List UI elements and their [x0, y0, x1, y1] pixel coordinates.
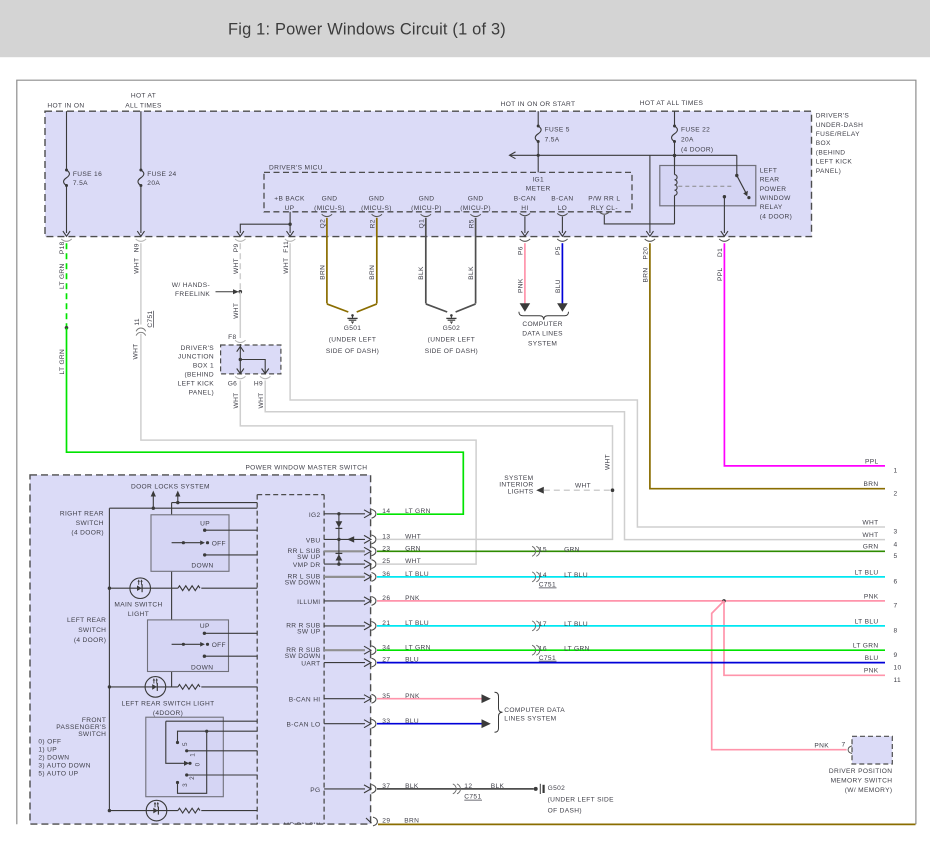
svg-text:HOT IN ON OR START: HOT IN ON OR START	[501, 101, 576, 108]
svg-text:(MICU-S): (MICU-S)	[314, 205, 345, 212]
svg-text:LT GRN: LT GRN	[59, 263, 66, 289]
svg-text:SW DOWN: SW DOWN	[285, 653, 321, 660]
svg-text:(UNDER LEFT: (UNDER LEFT	[428, 337, 475, 344]
svg-text:LT GRN: LT GRN	[853, 643, 879, 650]
svg-text:(4 DOOR): (4 DOOR)	[71, 529, 103, 536]
svg-text:DRIVER'S: DRIVER'S	[181, 345, 215, 352]
svg-text:DRIVER POSITION: DRIVER POSITION	[829, 768, 893, 775]
svg-text:G502: G502	[548, 785, 566, 792]
svg-text:LT BLU: LT BLU	[855, 618, 879, 625]
svg-text:(UNDER LEFT: (UNDER LEFT	[329, 337, 376, 344]
svg-text:POWER: POWER	[760, 186, 787, 193]
svg-text:N9: N9	[134, 243, 141, 252]
svg-text:14: 14	[382, 508, 390, 515]
svg-text:BRN: BRN	[319, 265, 326, 280]
svg-text:WHT: WHT	[862, 519, 878, 526]
svg-text:0) OFF: 0) OFF	[38, 738, 61, 745]
svg-text:10: 10	[894, 664, 902, 671]
svg-text:UP: UP	[285, 205, 295, 212]
svg-text:WHT: WHT	[134, 258, 141, 274]
svg-text:MEMORY SWITCH: MEMORY SWITCH	[831, 778, 893, 785]
svg-text:16: 16	[539, 645, 547, 652]
svg-text:6: 6	[894, 579, 898, 586]
svg-text:G501: G501	[344, 325, 362, 332]
svg-text:GND: GND	[468, 195, 484, 202]
svg-text:COMPUTER: COMPUTER	[522, 321, 563, 328]
svg-text:JUNCTION: JUNCTION	[178, 354, 214, 361]
svg-text:C751: C751	[464, 794, 481, 801]
svg-text:SW UP: SW UP	[297, 629, 321, 636]
svg-text:0: 0	[194, 762, 201, 766]
svg-text:BRN: BRN	[864, 481, 879, 488]
svg-text:WHT: WHT	[233, 392, 240, 408]
svg-text:WHT: WHT	[862, 532, 878, 539]
svg-text:W/ HANDS-: W/ HANDS-	[172, 282, 210, 289]
svg-text:WHT: WHT	[283, 258, 290, 274]
svg-text:UP: UP	[200, 520, 210, 527]
svg-text:SW UP: SW UP	[297, 554, 321, 561]
svg-text:LINES SYSTEM: LINES SYSTEM	[504, 715, 556, 722]
svg-text:29: 29	[382, 818, 390, 825]
svg-text:D1: D1	[717, 248, 724, 257]
svg-text:PG: PG	[310, 787, 320, 794]
svg-text:14: 14	[539, 572, 547, 579]
svg-text:SYSTEM: SYSTEM	[528, 340, 557, 347]
svg-text:PANEL): PANEL)	[189, 389, 214, 396]
svg-text:BLU: BLU	[555, 279, 562, 293]
svg-text:20A: 20A	[681, 137, 694, 144]
svg-text:3: 3	[894, 529, 898, 536]
svg-text:5: 5	[182, 742, 189, 746]
svg-text:(4DOOR): (4DOOR)	[153, 710, 183, 717]
svg-text:LIGHT: LIGHT	[128, 611, 149, 618]
svg-text:SIDE OF DASH): SIDE OF DASH)	[425, 348, 478, 355]
svg-text:1: 1	[894, 468, 898, 475]
svg-text:WHT: WHT	[133, 343, 140, 359]
svg-text:12: 12	[464, 783, 472, 790]
svg-text:RIGHT REAR: RIGHT REAR	[60, 511, 104, 518]
svg-text:LT BLU: LT BLU	[564, 621, 588, 628]
svg-text:GND: GND	[419, 195, 435, 202]
svg-text:F11: F11	[283, 241, 290, 253]
svg-text:DATA LINES: DATA LINES	[522, 331, 563, 338]
svg-text:UP: UP	[200, 623, 210, 630]
svg-text:OFF: OFF	[212, 642, 226, 649]
svg-text:1) UP: 1) UP	[38, 746, 57, 753]
svg-text:WHT: WHT	[405, 558, 421, 565]
svg-text:BLK: BLK	[418, 266, 425, 280]
svg-text:RELAY: RELAY	[760, 204, 783, 211]
svg-text:ALL TIMES: ALL TIMES	[125, 103, 162, 110]
svg-text:LT GRN: LT GRN	[405, 508, 431, 515]
svg-text:F8: F8	[228, 334, 236, 341]
svg-text:13: 13	[382, 534, 390, 541]
svg-text:FUSE 24: FUSE 24	[147, 171, 176, 178]
svg-text:20A: 20A	[147, 180, 160, 187]
svg-text:(MICU-P): (MICU-P)	[411, 205, 442, 212]
svg-text:LEFT REAR SWITCH LIGHT: LEFT REAR SWITCH LIGHT	[122, 701, 215, 708]
svg-text:SW DOWN: SW DOWN	[285, 580, 321, 587]
svg-text:METER: METER	[526, 186, 551, 193]
svg-text:B-CAN: B-CAN	[514, 195, 536, 202]
svg-text:Fig 1: Power Windows Circuit (: Fig 1: Power Windows Circuit (1 of 3)	[228, 20, 506, 38]
svg-text:P18: P18	[59, 241, 66, 254]
svg-text:DOWN: DOWN	[191, 664, 213, 671]
svg-text:FREELINK: FREELINK	[175, 291, 210, 298]
svg-text:COMPUTER DATA: COMPUTER DATA	[504, 707, 565, 714]
svg-text:4: 4	[894, 541, 898, 548]
svg-text:VMP DR: VMP DR	[293, 562, 321, 569]
svg-text:PNK: PNK	[864, 593, 879, 600]
svg-text:7: 7	[894, 603, 898, 610]
svg-text:PNK: PNK	[518, 278, 525, 293]
svg-text:LT BLU: LT BLU	[564, 572, 588, 579]
svg-text:2: 2	[894, 490, 898, 497]
svg-text:R2: R2	[370, 219, 377, 228]
svg-text:LT GRN: LT GRN	[59, 349, 66, 375]
svg-text:RLY CL-: RLY CL-	[591, 205, 618, 212]
svg-text:FRONT: FRONT	[82, 717, 106, 724]
svg-text:P5: P5	[555, 246, 562, 255]
svg-text:GND: GND	[369, 195, 385, 202]
svg-text:(W/ MEMORY): (W/ MEMORY)	[845, 787, 893, 794]
svg-text:+B BACK: +B BACK	[274, 195, 305, 202]
svg-text:LEFT KICK: LEFT KICK	[816, 159, 853, 166]
svg-text:HOT IN ON: HOT IN ON	[47, 103, 84, 110]
svg-text:(BEHIND: (BEHIND	[184, 372, 214, 379]
svg-text:C751: C751	[539, 582, 556, 589]
svg-text:PPL: PPL	[865, 458, 879, 465]
svg-text:BLK: BLK	[468, 266, 475, 280]
svg-text:BRN: BRN	[369, 265, 376, 280]
svg-text:R5: R5	[468, 219, 475, 228]
svg-text:BLK: BLK	[491, 783, 505, 790]
svg-text:FUSE 22: FUSE 22	[681, 126, 710, 133]
svg-text:IG2: IG2	[309, 512, 321, 519]
svg-text:FUSE 5: FUSE 5	[545, 126, 570, 133]
svg-text:15: 15	[539, 547, 547, 554]
svg-text:P20: P20	[643, 247, 650, 260]
svg-text:WHT: WHT	[233, 258, 240, 274]
svg-text:OFF: OFF	[212, 540, 226, 547]
svg-text:7.5A: 7.5A	[73, 180, 88, 187]
svg-text:BLU: BLU	[865, 655, 879, 662]
svg-text:SIDE OF DASH): SIDE OF DASH)	[326, 348, 379, 355]
svg-text:8: 8	[894, 628, 898, 635]
svg-text:WHT: WHT	[405, 534, 421, 541]
svg-text:LEFT: LEFT	[760, 167, 778, 174]
svg-text:P/W RR L: P/W RR L	[588, 195, 620, 202]
svg-text:DOOR LOCKS SYSTEM: DOOR LOCKS SYSTEM	[131, 484, 210, 491]
svg-text:B-CAN HI: B-CAN HI	[289, 697, 321, 704]
svg-text:5) AUTO UP: 5) AUTO UP	[38, 771, 78, 778]
svg-text:WHT: WHT	[233, 303, 240, 319]
svg-text:1: 1	[189, 753, 196, 757]
svg-text:LEFT REAR: LEFT REAR	[67, 617, 106, 624]
svg-text:2) DOWN: 2) DOWN	[38, 755, 69, 762]
svg-text:SWITCH: SWITCH	[78, 627, 106, 634]
svg-text:HI: HI	[521, 205, 528, 212]
svg-text:7: 7	[841, 742, 845, 749]
svg-text:(4 DOOR): (4 DOOR)	[681, 147, 713, 154]
svg-text:3: 3	[182, 783, 189, 787]
svg-text:OF DASH): OF DASH)	[548, 808, 582, 815]
svg-text:IG1: IG1	[532, 177, 544, 184]
svg-text:VBU: VBU	[306, 537, 321, 544]
svg-text:UNDER-DASH: UNDER-DASH	[816, 122, 863, 129]
svg-text:LO: LO	[558, 205, 568, 212]
svg-text:(4 DOOR): (4 DOOR)	[760, 213, 792, 220]
svg-text:DRIVER'S: DRIVER'S	[816, 113, 850, 120]
svg-text:REAR: REAR	[760, 177, 780, 184]
svg-text:5: 5	[894, 553, 898, 560]
svg-text:WINDOW: WINDOW	[760, 195, 791, 202]
svg-text:HOT AT ALL TIMES: HOT AT ALL TIMES	[640, 100, 704, 107]
svg-text:WHT: WHT	[258, 392, 265, 408]
svg-text:WHT: WHT	[605, 454, 612, 470]
svg-text:H9: H9	[254, 380, 263, 387]
svg-text:Q1: Q1	[419, 219, 426, 229]
svg-text:(MICU-S): (MICU-S)	[361, 205, 392, 212]
svg-text:SWITCH: SWITCH	[76, 520, 104, 527]
svg-text:LT BLU: LT BLU	[855, 569, 879, 576]
svg-text:LEFT KICK: LEFT KICK	[178, 380, 215, 387]
svg-text:PANEL): PANEL)	[816, 168, 841, 175]
svg-text:LIGHTS: LIGHTS	[508, 488, 534, 495]
svg-text:SWITCH: SWITCH	[78, 731, 106, 738]
svg-text:(4 DOOR): (4 DOOR)	[74, 637, 106, 644]
svg-text:11: 11	[894, 677, 902, 684]
svg-text:(MICU-P): (MICU-P)	[460, 205, 491, 212]
svg-text:GND: GND	[322, 195, 338, 202]
svg-text:BOX: BOX	[816, 140, 831, 147]
svg-text:P6: P6	[518, 246, 525, 255]
svg-text:POWER WINDOW MASTER SWITCH: POWER WINDOW MASTER SWITCH	[245, 464, 367, 471]
svg-text:PPL: PPL	[717, 267, 724, 281]
svg-text:FUSE/RELAY: FUSE/RELAY	[816, 131, 860, 138]
svg-text:3) AUTO DOWN: 3) AUTO DOWN	[38, 763, 90, 770]
svg-text:9: 9	[894, 652, 898, 659]
svg-text:FUSE 16: FUSE 16	[73, 171, 102, 178]
svg-text:DRIVER'S MICU: DRIVER'S MICU	[269, 164, 323, 171]
svg-text:11: 11	[134, 318, 141, 326]
svg-text:GRN: GRN	[863, 544, 879, 551]
svg-text:25: 25	[382, 558, 390, 565]
svg-text:MAIN SWITCH: MAIN SWITCH	[114, 601, 162, 608]
svg-text:ILLUMI: ILLUMI	[297, 599, 320, 606]
svg-text:UART: UART	[301, 661, 320, 668]
svg-text:7.5A: 7.5A	[545, 137, 560, 144]
svg-text:BRN: BRN	[404, 818, 419, 825]
svg-text:LT GRN: LT GRN	[564, 645, 590, 652]
svg-text:B-CAN LO: B-CAN LO	[287, 722, 321, 729]
svg-text:Q2: Q2	[320, 219, 327, 229]
svg-text:HOT AT: HOT AT	[131, 93, 156, 100]
svg-text:PNK: PNK	[864, 668, 879, 675]
svg-text:G6: G6	[228, 380, 238, 387]
svg-text:(BEHIND: (BEHIND	[816, 149, 846, 156]
svg-text:WHT: WHT	[575, 482, 591, 489]
svg-text:B-CAN: B-CAN	[551, 195, 573, 202]
svg-text:BOX 1: BOX 1	[193, 363, 214, 370]
svg-text:GRN: GRN	[564, 547, 580, 554]
svg-text:P9: P9	[233, 244, 240, 253]
svg-text:G502: G502	[443, 325, 461, 332]
svg-text:DOWN: DOWN	[191, 563, 213, 570]
svg-text:PNK: PNK	[814, 742, 829, 749]
svg-text:BRN: BRN	[643, 268, 650, 283]
svg-text:17: 17	[539, 621, 547, 628]
svg-text:2: 2	[189, 776, 196, 780]
svg-text:PASSENGER'S: PASSENGER'S	[56, 724, 106, 731]
svg-text:(UNDER LEFT SIDE: (UNDER LEFT SIDE	[548, 796, 615, 803]
